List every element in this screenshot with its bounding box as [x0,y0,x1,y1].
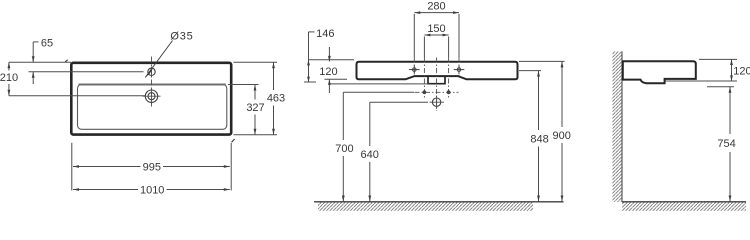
dimension 65 [32,38,53,85]
drain horizontal centerline arm [143,95,161,97]
svg-text:700: 700 [335,143,353,155]
corner tick bottom-right [232,139,235,142]
extension line top edge (left) [9,61,71,63]
dimension 150 [424,23,448,97]
corner tick top-left [65,60,68,62]
extension line drain box bottom (to 146) [330,83,429,85]
svg-text:848: 848 [530,133,548,145]
extension line bottom right [230,143,232,191]
extension line bar top (to 146) [309,59,355,61]
dimension 463 [267,62,285,134]
dimension 900 [519,61,571,201]
svg-text:150: 150 [427,23,445,35]
extension line side top (to 120) [699,58,737,60]
drain vertical centerline [436,58,438,111]
basin inner bowl (plan) [78,85,227,130]
floor line (side view) [622,201,746,203]
svg-text:640: 640 [361,149,379,161]
svg-text:146: 146 [316,28,334,40]
dimension 280 [414,1,459,76]
svg-text:Ø35: Ø35 [170,30,193,42]
dimension 754 [707,87,736,202]
floor hatch (front view) [318,203,533,212]
dimension 210 [0,62,18,96]
svg-text:995: 995 [143,162,161,174]
svg-text:65: 65 [41,38,53,50]
wall hatch [613,52,623,202]
svg-text:900: 900 [553,130,571,142]
svg-text:120: 120 [733,65,750,77]
wall line [621,52,623,202]
dimension 327 [246,85,264,135]
basin front profile [357,62,518,80]
extension line side bottom (to 120) [665,80,737,82]
extension line drain centre to dim 210 [9,95,145,97]
tap hole Ø35 [148,68,155,75]
basin side profile [623,61,696,83]
floor line (front view) [314,201,564,203]
drain boss (front) [428,76,445,84]
dimension 995 [73,162,230,174]
extension line inner bowl top (right) [228,84,259,86]
extension line tap centre (left) [29,71,144,73]
dimension 700 [335,92,414,201]
bolt centerline horizontal [415,91,459,93]
label Ø35 leader [145,41,172,78]
dimension 640 [361,102,428,201]
basin outer rim (plan) [71,63,231,135]
dimension 848 [519,71,549,202]
drain outlet (plan) [145,90,157,102]
floor hatch (side view) [622,203,746,212]
fixing bolt right [447,90,451,94]
vertical centerline tap/drain [151,57,153,107]
extension line bottom left [71,143,73,191]
svg-text:210: 210 [0,72,18,84]
svg-text:327: 327 [246,102,264,114]
fixing bolt left [423,90,427,94]
svg-text:280: 280 [427,1,445,13]
svg-text:1010: 1010 [140,185,164,197]
drain trap symbol [430,96,445,109]
extension line outer top (right) [234,61,278,63]
svg-text:463: 463 [267,93,285,105]
extension line outer bottom (right) [234,134,278,136]
tap hole marker right [454,65,465,75]
dimension 120 (front) [319,47,347,93]
dimension 120 (side) [730,59,750,81]
svg-text:754: 754 [717,138,735,150]
dimension 146 [304,28,334,82]
tap hole marker left [409,65,420,75]
dimension 1010 [73,185,230,197]
svg-text:120: 120 [319,66,337,78]
